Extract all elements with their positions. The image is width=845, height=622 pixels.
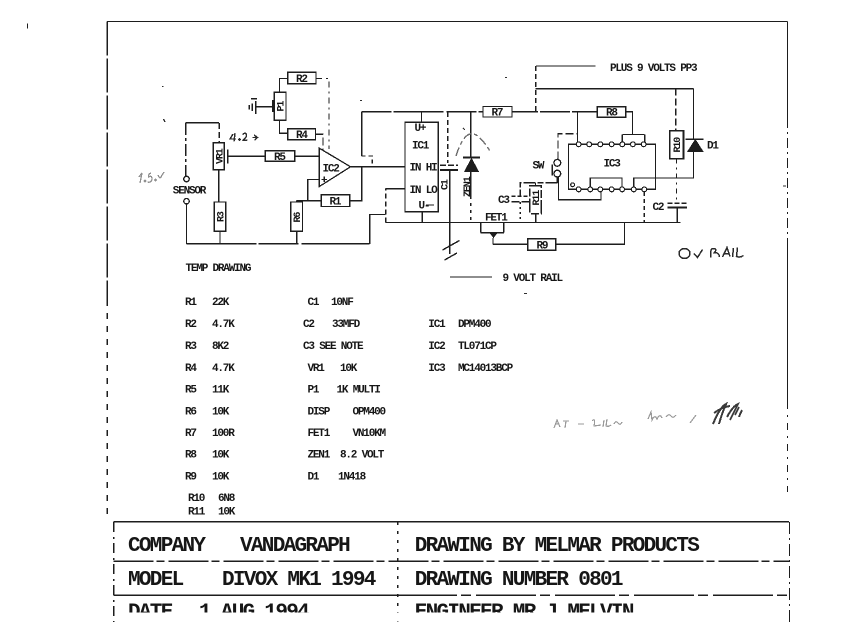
wire P1 wiper bar	[272, 100, 274, 112]
capacitor C1	[440, 165, 458, 254]
svg-text:IC1: IC1	[412, 141, 430, 153]
svg-text:TL071CP: TL071CP	[458, 341, 497, 353]
resistor R5	[265, 151, 294, 164]
title block row divider 1	[114, 560, 790, 562]
wire P1 wiper	[257, 106, 273, 108]
svg-text:SW: SW	[533, 160, 545, 172]
ground break symbol below C1	[443, 241, 460, 261]
wire IC3 pin2 top to rail	[577, 112, 579, 142]
svg-text:D1: D1	[707, 141, 719, 153]
sensor terminal node 2	[184, 199, 189, 204]
diode D1	[686, 139, 720, 152]
svg-text:R10: R10	[673, 137, 684, 153]
wire IC3 pin6 to D1	[634, 152, 694, 188]
svg-text:U+: U+	[415, 123, 427, 135]
svg-text:DRAWING NUMBER 0801: DRAWING NUMBER 0801	[415, 569, 623, 592]
wire R2 left lead	[279, 79, 287, 93]
svg-text:FET1: FET1	[308, 428, 331, 440]
wire R1 right to output	[350, 167, 362, 201]
potentiometer P1	[274, 92, 287, 120]
resistor R2	[288, 72, 316, 86]
resistor R9	[528, 239, 556, 253]
svg-text:VANDAGRAPH: VANDAGRAPH	[240, 535, 350, 558]
wire rail B	[386, 221, 681, 223]
parts list column 2	[303, 297, 387, 484]
wire R5 to op-amp inverting input	[295, 155, 320, 157]
svg-text:1N418: 1N418	[338, 472, 367, 484]
wire wiper to R5	[228, 155, 265, 157]
wire R6 bottom lead	[296, 231, 298, 244]
svg-text:VR1: VR1	[215, 148, 226, 164]
parts list column 1	[185, 297, 236, 519]
wire IN LO vertical	[385, 189, 387, 223]
wire D1 top lead	[693, 89, 695, 139]
title row 2: MODEL DIVOX MK1 1994	[128, 569, 623, 592]
svg-text:DISP: DISP	[308, 407, 331, 419]
wire second top line to D1	[536, 88, 694, 90]
resistor R7	[483, 107, 512, 120]
svg-text:IN LO: IN LO	[410, 185, 439, 197]
svg-text:DPM400: DPM400	[458, 319, 491, 331]
wire IN LO to IC1	[386, 188, 405, 190]
svg-text:10K: 10K	[212, 450, 230, 462]
svg-text:R1: R1	[185, 297, 197, 309]
svg-text:10K: 10K	[212, 472, 230, 484]
border frame tick	[27, 24, 29, 29]
title block outer top	[114, 521, 790, 523]
zener diode ZEN1	[463, 158, 480, 223]
svg-text:11K: 11K	[212, 385, 230, 397]
svg-text:4.7K: 4.7K	[212, 319, 235, 331]
net label PLUS 9 VOLTS PP3	[610, 63, 698, 75]
resistor R1	[321, 195, 349, 209]
sensor terminal node 1	[184, 176, 189, 181]
svg-text:VN10KM: VN10KM	[353, 428, 387, 440]
svg-text:C3 SEE NOTE: C3 SEE NOTE	[303, 341, 364, 353]
svg-text:D1: D1	[308, 472, 320, 484]
svg-text:R4: R4	[296, 130, 308, 142]
svg-text:R3: R3	[185, 341, 197, 353]
svg-text:C3: C3	[498, 195, 510, 207]
wire plus 9 volts line	[536, 65, 596, 67]
resistor R3	[214, 202, 227, 231]
svg-text:100R: 100R	[212, 428, 235, 440]
svg-text:6N8: 6N8	[218, 493, 236, 505]
svg-text:C1: C1	[308, 297, 320, 309]
svg-text:IN HI: IN HI	[410, 162, 438, 174]
svg-text:TEMP DRAWING: TEMP DRAWING	[186, 263, 252, 275]
svg-text:R7: R7	[492, 108, 503, 120]
svg-text:22K: 22K	[212, 297, 230, 309]
handwritten 4.2 mv annotation	[230, 133, 258, 142]
wire R2 right lead long vertical	[316, 79, 329, 150]
svg-text:IC3: IC3	[604, 158, 622, 170]
title block left edge	[113, 522, 115, 622]
resistor R8	[597, 107, 626, 120]
svg-text:10K: 10K	[340, 363, 358, 375]
wire top-left loop to sensor	[186, 122, 219, 124]
IC3 top pins	[576, 142, 646, 147]
svg-text:R10: R10	[188, 493, 205, 505]
svg-text:8K2: 8K2	[212, 341, 229, 353]
wire ZEN1 top lead	[470, 112, 472, 157]
9 volt rail label	[450, 273, 564, 285]
resistor R11	[530, 183, 543, 223]
sensor label	[173, 186, 207, 198]
svg-text:R6: R6	[293, 212, 304, 223]
svg-text:R8: R8	[606, 108, 618, 120]
wire SW bottom right to IC3 clock pin	[559, 177, 602, 200]
svg-text:R9: R9	[537, 241, 548, 253]
handwritten arc over ZEN1	[456, 134, 491, 156]
svg-text:FET1: FET1	[485, 212, 508, 224]
switch SW	[533, 159, 561, 177]
svg-text:10K: 10K	[212, 407, 230, 419]
wire VR1 to R3	[218, 170, 220, 202]
wire C1 top lead	[447, 112, 449, 163]
svg-text:10NF: 10NF	[331, 297, 353, 309]
wire plus9 drop	[535, 66, 537, 112]
frame top border	[107, 21, 788, 23]
svg-text:R8: R8	[185, 450, 197, 462]
svg-text:PLUS 9 VOLTS PP3: PLUS 9 VOLTS PP3	[610, 63, 698, 75]
svg-text:R5: R5	[185, 385, 197, 397]
wire R4 right lead down to op-amp	[316, 134, 324, 150]
svg-text:C2: C2	[303, 319, 314, 331]
wire SW top to rail drop	[558, 134, 578, 160]
svg-text:DIVOX MK1 1994: DIVOX MK1 1994	[222, 569, 376, 592]
svg-text:VR1: VR1	[308, 363, 326, 375]
ground bars for P1	[255, 101, 257, 114]
wire R10 top lead	[675, 89, 677, 131]
svg-text:P1: P1	[277, 101, 288, 112]
svg-text:IC2: IC2	[323, 164, 340, 176]
svg-text:R11: R11	[532, 190, 543, 206]
wire op-amp output to IC1 IN HI	[351, 166, 406, 168]
svg-text:33MFD: 33MFD	[332, 319, 361, 331]
wire rail drop to output node	[361, 112, 363, 156]
wire IC3 bottom bracket pins 2-5	[590, 178, 622, 187]
svg-text:P1: P1	[308, 385, 320, 397]
wire rail A jog up to IN LO vertical	[370, 215, 386, 244]
frame left border	[106, 22, 108, 301]
wire R6 top stub	[296, 201, 298, 202]
wire SW bottom left to C3	[520, 177, 557, 196]
svg-text:ZEN1: ZEN1	[463, 176, 474, 197]
meter module IC1	[405, 122, 438, 212]
wire R3 bottom lead	[219, 231, 221, 244]
svg-text:R5: R5	[274, 152, 286, 164]
wire R8 bracket to IC3 pins	[622, 133, 644, 135]
svg-text:R2: R2	[296, 74, 307, 86]
svg-text:R9: R9	[185, 472, 196, 484]
handwritten 1.5v annotation	[139, 172, 164, 183]
parts list column 3 ICs	[428, 319, 513, 375]
svg-text:C2: C2	[653, 202, 664, 214]
wire bottom rail A	[186, 243, 369, 245]
frame right border	[787, 22, 789, 119]
svg-text:ZEN1: ZEN1	[308, 450, 331, 462]
resistor R10	[670, 131, 684, 202]
svg-text:R11: R11	[188, 507, 206, 519]
wire R9 right up to rail B	[556, 222, 625, 244]
svg-text:R6: R6	[185, 407, 196, 419]
svg-text:1K MULTI: 1K MULTI	[337, 385, 381, 397]
svg-text:10K: 10K	[218, 507, 236, 519]
IC3 bottom pins	[571, 183, 647, 192]
svg-text:OPM400: OPM400	[353, 407, 386, 419]
title block right edge	[789, 522, 791, 622]
wire op-amp + input	[308, 179, 319, 200]
title block row divider 2	[114, 594, 398, 596]
svg-text:IC3: IC3	[428, 363, 446, 375]
svg-text:8.2 VOLT: 8.2 VOLT	[340, 450, 385, 462]
svg-text:4.7K: 4.7K	[212, 363, 235, 375]
note TEMP DRAWING	[186, 263, 252, 275]
handwritten 0v RAIL	[679, 248, 744, 259]
resistor R4	[288, 129, 316, 142]
wire IC1 U- lead	[421, 212, 423, 223]
svg-text:SENSOR: SENSOR	[173, 186, 207, 198]
svg-text:COMPANY: COMPANY	[128, 535, 206, 558]
title row 3: DATE / ENGINEER (cut off)	[115, 602, 789, 622]
op-amp U1 IC2	[319, 148, 350, 187]
handwritten dark flourish	[713, 404, 742, 424]
svg-text:R2: R2	[185, 319, 196, 331]
svg-text:R4: R4	[185, 363, 197, 375]
title block column divider	[397, 522, 399, 622]
wire R8 right lead	[626, 112, 633, 135]
wire main rail y=111.8 left span	[362, 111, 483, 113]
wire FET to R9	[493, 243, 528, 245]
FET1	[481, 212, 509, 244]
capacitor C2	[653, 202, 688, 223]
svg-text:R1: R1	[330, 197, 342, 209]
wire sensor lower lead	[185, 204, 187, 244]
svg-text:R3: R3	[216, 211, 227, 222]
svg-text:MC14013BCP: MC14013BCP	[458, 363, 514, 375]
wire rail R7 to R8	[512, 111, 597, 113]
title row 1: COMPANY VANDAGRAPH	[128, 535, 699, 558]
capacitor C3	[498, 195, 529, 223]
wire R6 top / R1 left node	[297, 200, 322, 202]
svg-text:IC2: IC2	[428, 341, 445, 353]
svg-text:U-: U-	[419, 201, 430, 213]
wire VR1 top lead	[218, 123, 220, 143]
stray scan marks	[162, 78, 786, 294]
handwritten pencil note	[554, 412, 696, 428]
svg-text:DRAWING BY MELMAR PRODUCTS: DRAWING BY MELMAR PRODUCTS	[415, 535, 700, 558]
svg-text:IC1: IC1	[428, 319, 446, 331]
wire VR1 wiper arrow bar	[227, 150, 229, 164]
IC3 body	[569, 144, 656, 189]
resistor R6	[291, 202, 304, 231]
wire IC3 pin7 down to rail B	[643, 192, 645, 223]
svg-text:9 VOLT RAIL: 9 VOLT RAIL	[503, 273, 564, 285]
potentiometer VR1	[213, 143, 226, 170]
svg-text:MODEL: MODEL	[128, 569, 184, 592]
svg-text:R7: R7	[185, 428, 196, 440]
wire IC1 U+ lead	[421, 112, 423, 123]
wire P1 bottom to R4	[279, 120, 287, 133]
wire jog at output node	[362, 156, 373, 167]
